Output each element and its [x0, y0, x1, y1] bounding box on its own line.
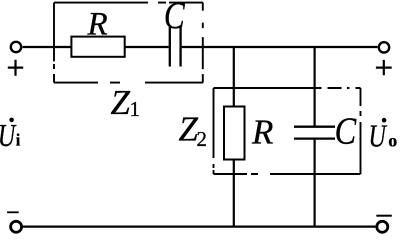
wire top rail right [182, 46, 378, 48]
wire branch C2 lower [314, 140, 316, 227]
wire bottom rail [23, 226, 376, 228]
svg-text:i: i [16, 131, 21, 150]
svg-text:Z: Z [111, 83, 131, 122]
svg-text:R: R [87, 6, 108, 42]
svg-text:C: C [164, 0, 186, 37]
Z1 dash-dot box right edge [202, 3, 204, 83]
svg-text:o: o [388, 130, 397, 150]
Z2 dash-dot box bottom edge [214, 173, 361, 175]
Z2 dash-dot box right edge [360, 88, 362, 174]
wire top rail middle [125, 46, 169, 48]
wire branch R2 upper [233, 47, 235, 107]
svg-text:R: R [251, 112, 273, 151]
svg-text:U: U [368, 119, 387, 154]
wire top rail left [23, 46, 72, 48]
capacitor C (series, in Z1) [170, 27, 181, 67]
plus sign input [8, 60, 23, 76]
minus overline output [376, 215, 392, 217]
Z2 dash-dot box top edge [214, 87, 361, 89]
wire branch C2 upper [314, 47, 316, 126]
svg-text:U: U [0, 119, 16, 154]
resistor R (shunt, in Z2) [224, 107, 245, 160]
svg-text:Z: Z [179, 109, 199, 148]
terminal output top-right [379, 42, 389, 52]
svg-text:C: C [335, 110, 357, 152]
capacitor C (shunt, in Z2) [294, 127, 335, 139]
Z2 dash-dot box left edge [213, 88, 215, 174]
resistor R (series, in Z1) [71, 37, 124, 57]
terminal output bottom-right [377, 221, 388, 232]
plus sign output [376, 60, 392, 75]
svg-text:1: 1 [130, 97, 141, 121]
terminal input top-left [11, 42, 21, 52]
wire branch R2 lower [233, 160, 235, 227]
Z1 dash-dot box top edge [54, 2, 203, 4]
Z1 dash-dot box left edge [53, 3, 55, 83]
terminal input bottom-left [11, 221, 22, 232]
svg-text:2: 2 [197, 127, 208, 151]
Z1 dash-dot box bottom edge [54, 82, 203, 84]
minus overline input [7, 211, 19, 213]
